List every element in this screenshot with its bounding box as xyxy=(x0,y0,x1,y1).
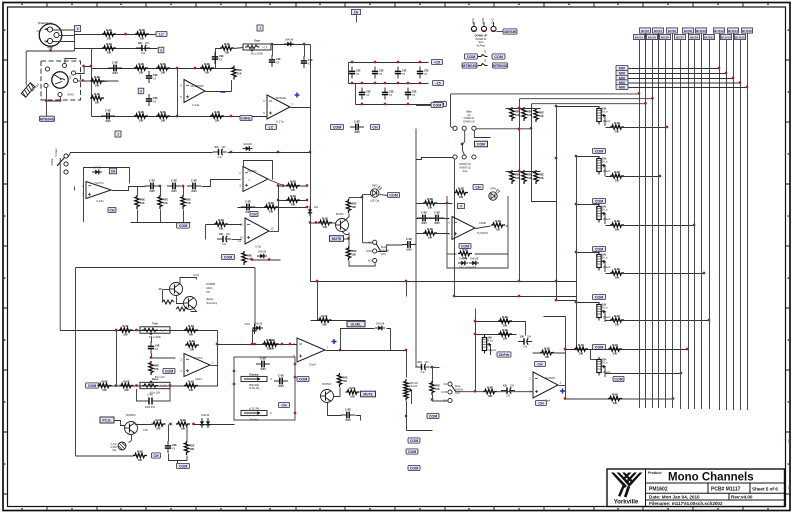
bus label 4 upper row xyxy=(653,28,664,33)
wire aux send 2 to bus xyxy=(606,176,661,178)
junction solo bus row3 xyxy=(644,102,647,105)
svg-text:PM1602: PM1602 xyxy=(649,486,668,492)
junction aux 1 bus xyxy=(666,126,669,129)
junction bank bottom rail 2 xyxy=(407,103,410,106)
svg-text:CH2: CH2 xyxy=(143,429,148,432)
svg-text:CH: CH xyxy=(538,402,544,406)
svg-text:Gain: Gain xyxy=(254,39,260,43)
capacitor C-5E polarized vertical xyxy=(301,56,313,68)
resistor R-24E treble left xyxy=(119,324,133,337)
wire led res top xyxy=(348,198,350,200)
junction insert right top xyxy=(294,363,297,366)
junction led row xyxy=(361,196,364,199)
net label under mix c xyxy=(408,465,420,470)
wire stick from top label xyxy=(356,15,358,22)
junction treble pot left xyxy=(135,329,138,332)
MJ input shield connector xyxy=(21,83,35,98)
svg-text:x3 SC-RA: x3 SC-RA xyxy=(249,387,260,390)
wire rail x415 xyxy=(415,129,417,368)
svg-text:COM: COM xyxy=(179,465,187,469)
junction mute row a xyxy=(169,423,172,426)
pan pot VR-7 vertical xyxy=(482,335,496,355)
wire U-20A fb loop xyxy=(244,161,273,180)
junction aux rail 2 xyxy=(575,155,578,158)
net label aux driver xyxy=(536,400,547,405)
wire TRS ring row xyxy=(78,80,118,82)
wire XLR pin junction vertical xyxy=(74,30,76,51)
junction row y200 right xyxy=(306,199,309,202)
resistor R-6E row3 c xyxy=(200,62,214,75)
svg-text:COM: COM xyxy=(595,150,603,154)
resistor R-64E aux 4 xyxy=(610,267,624,280)
junction row y259 a xyxy=(251,258,254,261)
wire mid rail y267 xyxy=(76,267,256,269)
net label link row2 right xyxy=(493,63,508,68)
resistor R-61E aux 1 xyxy=(610,121,624,133)
power stub pfl xyxy=(458,203,465,208)
bus line 13 xyxy=(726,40,728,411)
net label MTB04S xyxy=(40,116,55,121)
wire pfl out xyxy=(476,226,491,229)
net label above U-21A xyxy=(250,211,258,216)
svg-text:Mute: Mute xyxy=(455,385,461,388)
junction pan rail c xyxy=(474,390,477,393)
svg-text:3: 3 xyxy=(160,48,162,52)
wire aux send 6 to bus xyxy=(606,373,682,375)
svg-text:LEE Clip: LEE Clip xyxy=(370,201,380,203)
net label stub mid xyxy=(138,88,144,94)
resistor R-9E row4 xyxy=(90,75,104,88)
capacitor C-14E mute xyxy=(165,441,177,453)
wire rail x454 xyxy=(454,160,456,297)
junction series cap b xyxy=(182,185,185,188)
resistor R-53E led vert xyxy=(346,199,356,213)
svg-text:BUS15: BUS15 xyxy=(735,35,745,39)
resistor R-17E 180R xyxy=(286,179,300,192)
capacitor C-40E bank bottom row xyxy=(359,88,371,100)
title block outline xyxy=(607,469,785,507)
wire aux driver out xyxy=(559,385,566,387)
net label stub below rows xyxy=(115,131,121,137)
net label bus stack 2 xyxy=(616,70,628,75)
resistor R-20E fb xyxy=(214,218,228,231)
op-amp U-14A MC33078P xyxy=(180,80,205,107)
capacitor C-30E bank top row xyxy=(349,67,361,79)
channel fader P-3 vertical xyxy=(404,379,418,404)
diode D-8E mute pair b xyxy=(206,418,210,428)
junction bank top rail 0 xyxy=(351,61,354,64)
svg-text:COM: COM xyxy=(410,467,418,471)
resistor R-43E solo vert c xyxy=(534,108,544,122)
wire aux in row xyxy=(456,391,534,393)
gain pot U-1 with box xyxy=(243,39,271,56)
svg-text:Extemp: Extemp xyxy=(249,373,259,376)
wire aux g6 rail xyxy=(590,350,592,360)
HLPass switch SW-1 contacts xyxy=(57,154,68,174)
junction aux row y349 bus xyxy=(686,348,689,351)
wire XLR shell drop xyxy=(50,47,52,51)
wire to MJ input shield xyxy=(25,51,27,86)
aux send pot VR-1 xyxy=(597,106,611,126)
net label stub at XLR xyxy=(75,26,81,32)
resistor R-31E bass right xyxy=(184,379,198,392)
net label stub standalone top xyxy=(257,25,263,31)
svg-text:15: 15 xyxy=(240,236,244,240)
wire cap bank mid rail xyxy=(349,83,429,85)
svg-text:Product: Product xyxy=(648,471,662,475)
junction TRS ring row xyxy=(81,79,84,82)
net label mute out xyxy=(427,413,439,418)
wire x317 drop xyxy=(317,282,319,321)
wire HLPass to filter row xyxy=(69,153,213,157)
wire Q4 base up xyxy=(334,388,340,397)
wire cap C-14E top xyxy=(168,425,170,442)
wire cap bank left tie bottom xyxy=(355,84,357,105)
svg-text:Sheet 5 of 6: Sheet 5 of 6 xyxy=(752,486,778,491)
svg-text:BUS14: BUS14 xyxy=(728,29,738,33)
wire cap to mute node xyxy=(430,367,440,369)
resistor R-30E bass left xyxy=(120,379,134,392)
svg-text:3: 3 xyxy=(140,89,142,93)
capacitor C-6E row6 xyxy=(101,109,115,123)
capacitor C0E lower xyxy=(146,94,158,106)
resistor R-35E mute vert xyxy=(184,441,194,455)
resistor R-1E row1 a xyxy=(102,28,116,41)
mute switch SW-2 NO xyxy=(448,398,452,402)
aux send pot VR-2 xyxy=(597,156,611,176)
wire aux send 3 to bus xyxy=(606,225,695,227)
resistor R-21E vert 2-7K xyxy=(242,251,252,265)
net label row1 xyxy=(156,31,167,36)
net label under mix b xyxy=(406,449,418,454)
capacitor C-17E emitter xyxy=(341,408,355,422)
resistor R-48E pfl fb xyxy=(454,186,468,199)
wire row4 xyxy=(92,81,107,83)
wire fb row y320 xyxy=(311,320,366,322)
junction bank top rail 3 xyxy=(419,61,422,64)
wire C-7B link xyxy=(232,239,242,241)
wire pfl foot link xyxy=(448,253,457,255)
wire aux row y398 xyxy=(566,398,674,400)
mute logic SW-5 NO xyxy=(373,258,377,262)
wire solo right drop xyxy=(474,131,490,138)
svg-text:COM: COM xyxy=(410,439,418,443)
svg-text:BUS9: BUS9 xyxy=(690,35,698,39)
svg-text:COM: COM xyxy=(477,143,485,147)
diode D-5E xyxy=(257,251,267,259)
svg-text:MUTE: MUTE xyxy=(332,237,342,241)
wire bass feed xyxy=(59,330,61,332)
wire main vertical x310 mid xyxy=(310,153,312,208)
junction mix in xyxy=(281,343,284,346)
bus line 3 xyxy=(652,40,654,409)
resistor R-19E row y207 xyxy=(264,201,278,214)
wire bus stack 2 xyxy=(629,73,727,75)
junction filter row c xyxy=(309,151,312,154)
junction row3 right xyxy=(194,67,197,70)
junction TRS tip row xyxy=(82,65,85,68)
net label aux 2 xyxy=(593,198,606,203)
solo switch SW-4 left xyxy=(453,155,457,159)
wire PCJL to Q3 xyxy=(115,421,126,426)
svg-text:U21D: U21D xyxy=(206,287,213,290)
resistor R-36E fb mix xyxy=(318,314,332,327)
op-amp U-19A TL072 filter xyxy=(82,182,111,203)
svg-text:BUS6: BUS6 xyxy=(668,29,676,33)
svg-text:TLO?Ch: TLO?Ch xyxy=(247,170,257,173)
svg-text:BUS2: BUS2 xyxy=(641,29,649,33)
junction bank bottom rail 0 xyxy=(361,103,364,106)
resistor R-37E mix in xyxy=(265,338,279,351)
bus label 13 lower row xyxy=(721,34,732,39)
junction gain out b xyxy=(303,43,306,46)
wire XLR pin3 to bus xyxy=(53,41,75,43)
wire aux rail x556 xyxy=(556,107,558,301)
wire aux out rail xyxy=(565,317,567,400)
resistor R-10E row5 xyxy=(90,92,104,105)
junction mute cap xyxy=(431,398,434,401)
aux send pot VR-6 xyxy=(597,357,611,377)
svg-text:D-E: D-E xyxy=(314,206,319,209)
junction solo res b xyxy=(518,170,521,173)
net label aux 5 xyxy=(593,344,606,349)
svg-text:+15: +15 xyxy=(434,61,440,65)
svg-text:TLO?Ch: TLO?Ch xyxy=(94,182,104,185)
svg-text:12: 12 xyxy=(271,227,275,231)
net label aux 4 xyxy=(593,294,606,299)
wire tone out row y344 xyxy=(218,344,298,346)
wire Q2 emitter xyxy=(191,309,197,312)
svg-text:BC#50C: BC#50C xyxy=(322,383,331,386)
wire Q4 cap right xyxy=(356,416,361,421)
diode D-10E pair right xyxy=(375,323,385,331)
junction solo rail x519 mid xyxy=(518,128,521,131)
op-amp U-04B TL072CP xyxy=(448,217,475,240)
power plus mark at U-16B xyxy=(560,389,565,394)
junction aux row y398 bus xyxy=(672,397,675,400)
svg-text:CH: CH xyxy=(111,169,116,173)
svg-text:10: 10 xyxy=(158,287,162,291)
junction row y207 xyxy=(306,206,309,209)
solo switch SW-3 right xyxy=(472,126,476,130)
svg-text:COM: COM xyxy=(595,248,603,252)
wire mute label link xyxy=(344,238,349,240)
svg-text:U_0: U_0 xyxy=(160,384,166,388)
wire shunt bottom rail xyxy=(131,222,191,224)
capacitor C-16F insert mid xyxy=(274,374,288,388)
wire treble feed x59 drop xyxy=(59,330,61,332)
Yorkville logo xyxy=(611,473,643,498)
net label cap bank V- xyxy=(433,80,444,85)
mute logic SW-5 NC xyxy=(373,240,377,244)
net label under mix a xyxy=(408,438,420,443)
resistor R-47E pfl in xyxy=(423,197,437,210)
junction mix pin xyxy=(289,343,292,346)
wire main vertical x310 upper xyxy=(310,45,312,153)
svg-text:Filename: m117V4.00sch.sch2002: Filename: m117V4.00sch.sch2002 xyxy=(649,501,723,506)
svg-text:U2a4: U2a4 xyxy=(309,362,316,366)
wire solo res link b xyxy=(506,171,541,173)
wire main vertical x310 lower xyxy=(310,208,312,282)
jumper J-2E row1 xyxy=(478,55,488,57)
net label pan xyxy=(535,361,546,366)
wire U-21A output xyxy=(270,231,279,233)
PFL block outline xyxy=(447,196,508,268)
wire filter stage link xyxy=(202,180,241,187)
solo switch SW-4 right xyxy=(472,155,476,159)
capacitor C-7B 3N polarized xyxy=(217,232,231,246)
junction bank mid rail b 1 xyxy=(384,82,387,85)
svg-text:ChFdr: ChFdr xyxy=(499,353,510,357)
resistor R-68E aux row b xyxy=(608,392,622,405)
net label U-19A lower xyxy=(108,207,116,212)
capacitor C-8E series a xyxy=(145,179,159,193)
svg-text:3CO: 3CO xyxy=(381,253,386,256)
junction mix out xyxy=(339,349,342,352)
svg-text:MUTE: MUTE xyxy=(363,393,373,397)
wire input row6 xyxy=(92,116,268,118)
svg-text:COM: COM xyxy=(595,200,603,204)
wire led switch drop x362 xyxy=(362,195,364,243)
wire mix fb up xyxy=(341,329,375,351)
resistor R-49E pfl low xyxy=(423,227,437,240)
wire Q5 emitter drop xyxy=(348,233,350,249)
resistor R-25E treble right xyxy=(184,324,198,337)
junction bank mid rail 1 xyxy=(374,82,377,85)
resistor R-7E vertical 1-5K xyxy=(232,66,242,80)
svg-text:1N4148: 1N4148 xyxy=(201,415,210,417)
net label bus stack 3 xyxy=(616,75,628,80)
transistor Q-1 LM3086 xyxy=(170,283,183,296)
wire gain pot out xyxy=(272,44,311,46)
treble pot U-2 boxed xyxy=(140,321,170,339)
junction tone out a xyxy=(216,343,219,346)
svg-text:TL072CP: TL072CP xyxy=(477,231,488,235)
junction aux 5 bus xyxy=(708,319,711,322)
svg-text:B-Lin 200K: B-Lin 200K xyxy=(251,53,263,56)
TRS tip contact xyxy=(71,71,75,75)
junction series cap a xyxy=(159,185,162,188)
capacitor C-CP electrolytic body xyxy=(110,442,126,452)
wire bass tie x116 xyxy=(116,331,118,387)
capacitor C-12E treble wiper xyxy=(148,342,160,354)
svg-text:BUS13: BUS13 xyxy=(721,35,731,39)
diode D-1E xyxy=(284,39,294,47)
capacitor C-4E xyxy=(269,55,281,67)
net label solo COM boxed xyxy=(475,141,488,147)
svg-text:MTB04S: MTB04S xyxy=(40,117,55,121)
wire U-17A output xyxy=(291,107,311,109)
title block logo cell divider xyxy=(646,469,785,507)
net label cap bank gnd xyxy=(434,101,447,106)
wire resistor row y185 xyxy=(279,185,308,187)
solo switch SW-3 mid xyxy=(462,126,466,130)
junction mute row b xyxy=(192,423,195,426)
bus line 5 xyxy=(665,40,667,409)
wire cap C-5E drop xyxy=(304,45,306,57)
wire pfl cap row xyxy=(416,218,450,220)
capacitor C-15E insert top xyxy=(256,357,270,371)
wire U-14A output xyxy=(206,91,232,93)
aux send pot VR-3 xyxy=(597,204,611,224)
resistor R-56E pan b xyxy=(498,328,512,341)
resistor R-41E solo vert a xyxy=(510,107,520,121)
svg-text:RING: RING xyxy=(68,94,74,97)
net label row6 xyxy=(240,115,252,120)
resistor R-11E row6 a xyxy=(134,110,148,123)
net label bus stack 4 xyxy=(616,80,628,85)
junction pan rail a xyxy=(474,320,477,323)
wire sleeve to label xyxy=(46,88,48,116)
capacitor C-22E pan polarized xyxy=(518,334,532,348)
junction bank mid rail b 2 xyxy=(407,82,410,85)
svg-text:LC: LC xyxy=(159,33,164,37)
svg-text:GRN: GRN xyxy=(490,187,496,191)
capacitor C-42E bank bottom row xyxy=(405,88,417,100)
wire bass row y385 xyxy=(86,385,218,387)
svg-text:C-4E: C-4E xyxy=(147,394,153,397)
svg-text:TIP: TIP xyxy=(70,75,73,79)
wire Q1 collector up xyxy=(180,278,197,284)
wire bus stack 3 xyxy=(629,78,734,80)
svg-text:BC#50C: BC#50C xyxy=(126,414,136,417)
svg-text:MIX: MIX xyxy=(619,86,626,90)
TRS sleeve contact xyxy=(58,92,62,96)
resistor R-65E aux 5 xyxy=(610,314,624,327)
resistor R-29E bass a xyxy=(98,379,112,392)
wire resistor row y200 xyxy=(279,200,308,202)
net label aux 3 xyxy=(593,246,606,251)
junction bank top rail 2 xyxy=(397,61,400,64)
junction pfl in xyxy=(446,202,449,205)
bus line 12 xyxy=(719,33,721,410)
net label below U-17A xyxy=(266,124,277,129)
wire mute bottom link xyxy=(169,454,188,461)
resistor R-16E shunt c xyxy=(181,195,191,209)
wire solo box right rail xyxy=(532,104,557,202)
bus line 16 xyxy=(747,33,749,410)
wire diode link xyxy=(387,329,391,351)
junction aux 2 bus xyxy=(659,175,662,178)
insert slider pot P-1 xyxy=(241,373,272,390)
wire C-CP link xyxy=(129,441,132,443)
junction rail x254 y344 xyxy=(253,343,256,346)
svg-text:CHNL: CHNL xyxy=(241,117,252,121)
revision tick marks outside right border xyxy=(788,440,791,489)
junction U-20A out b xyxy=(282,184,285,187)
transistor Q-4 BC550 mix xyxy=(321,390,334,403)
junction mute label xyxy=(347,237,350,240)
junction wiper node xyxy=(150,356,153,359)
capacitor C-41E bank bottom row xyxy=(382,88,394,100)
resistor R-5E row3 b xyxy=(156,62,170,75)
wire cap bank top rail xyxy=(349,62,429,64)
net label decouple left xyxy=(331,124,344,129)
net label solo top xyxy=(431,102,443,107)
wire bus stack 5 xyxy=(629,87,748,89)
insert block outline xyxy=(234,357,295,420)
wire cap to op-amp pin2 xyxy=(152,354,176,359)
TRS contact lower-left xyxy=(44,83,48,87)
wire aux feed 2 xyxy=(577,156,600,158)
svg-text:DOWN UP: DOWN UP xyxy=(463,121,475,124)
svg-text:HLPass: HLPass xyxy=(55,148,58,158)
resistor R-12E row6 b xyxy=(156,110,170,123)
junction y281 x317 xyxy=(316,280,319,283)
svg-text:SW20A: SW20A xyxy=(455,389,464,392)
junction bus stack 4 xyxy=(739,81,742,84)
junction aux row y349 rail xyxy=(575,348,578,351)
